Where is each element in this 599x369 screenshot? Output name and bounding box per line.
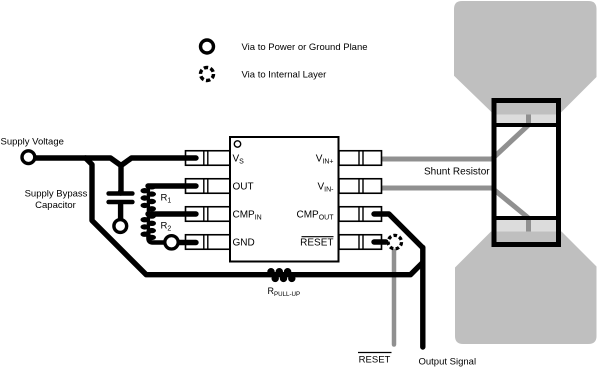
svg-text:GND: GND xyxy=(233,238,255,249)
svg-text:RESET: RESET xyxy=(300,238,333,249)
svg-text:Supply Bypass: Supply Bypass xyxy=(25,189,88,200)
svg-text:Output Signal: Output Signal xyxy=(419,357,477,368)
svg-text:Capacitor: Capacitor xyxy=(35,200,76,211)
svg-text:Via to Internal Layer: Via to Internal Layer xyxy=(242,70,327,81)
svg-text:OUT: OUT xyxy=(233,182,254,193)
svg-text:Via to Power or Ground Plane: Via to Power or Ground Plane xyxy=(242,42,368,53)
svg-text:R2: R2 xyxy=(161,221,172,233)
svg-text:Shunt Resistor: Shunt Resistor xyxy=(424,166,490,177)
svg-text:R1: R1 xyxy=(161,193,172,205)
svg-text:Supply Voltage: Supply Voltage xyxy=(1,137,64,148)
svg-text:RESET: RESET xyxy=(359,355,391,366)
svg-text:RPULL-UP: RPULL-UP xyxy=(268,286,301,298)
